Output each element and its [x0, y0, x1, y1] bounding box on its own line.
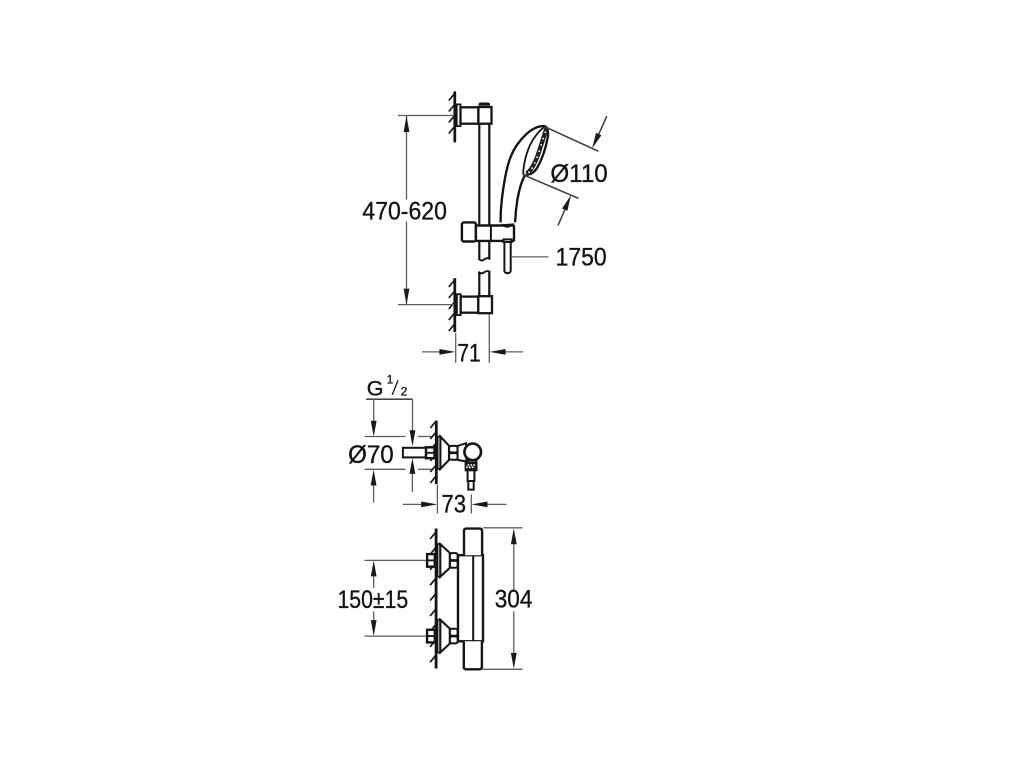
- svg-text:1: 1: [387, 375, 393, 387]
- svg-text:G: G: [367, 376, 384, 400]
- svg-text:470-620: 470-620: [362, 197, 447, 225]
- svg-text:150±15: 150±15: [338, 586, 409, 614]
- svg-text:304: 304: [495, 585, 533, 613]
- svg-text:73: 73: [441, 491, 466, 519]
- svg-text:71: 71: [457, 340, 480, 368]
- svg-text:Ø70: Ø70: [348, 441, 394, 469]
- svg-text:1750: 1750: [556, 244, 607, 272]
- svg-text:Ø110: Ø110: [550, 160, 607, 188]
- svg-text:2: 2: [401, 384, 408, 398]
